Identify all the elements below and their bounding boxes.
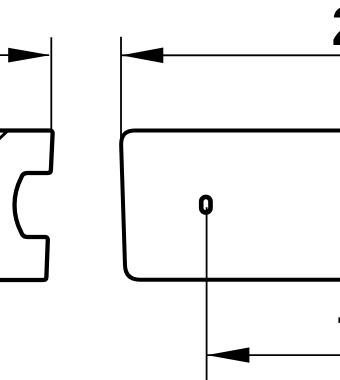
left part side-view outline (0, 131, 53, 281)
left part top-left chamfer edge (0, 131, 7, 140)
oval slot hole in right part (201, 197, 210, 213)
extension line at x=50.8 (50, 37, 52, 129)
partial digit mark at bottom right edge (338, 317, 340, 323)
bottom dimension line (207, 354, 340, 356)
top-left arrowhead pointing right (8, 48, 50, 63)
top-left dimension line (0, 54, 49, 56)
top-right arrowhead pointing left (121, 48, 163, 64)
bottom arrowhead pointing left (207, 347, 250, 362)
extension line at x=120.3 (120, 37, 122, 142)
svg-text:2: 2 (332, 0, 340, 57)
top-right dimension line (121, 54, 340, 56)
leader line from hole center down (206, 207, 208, 380)
right part top-view rounded rectangle (121, 131, 340, 280)
